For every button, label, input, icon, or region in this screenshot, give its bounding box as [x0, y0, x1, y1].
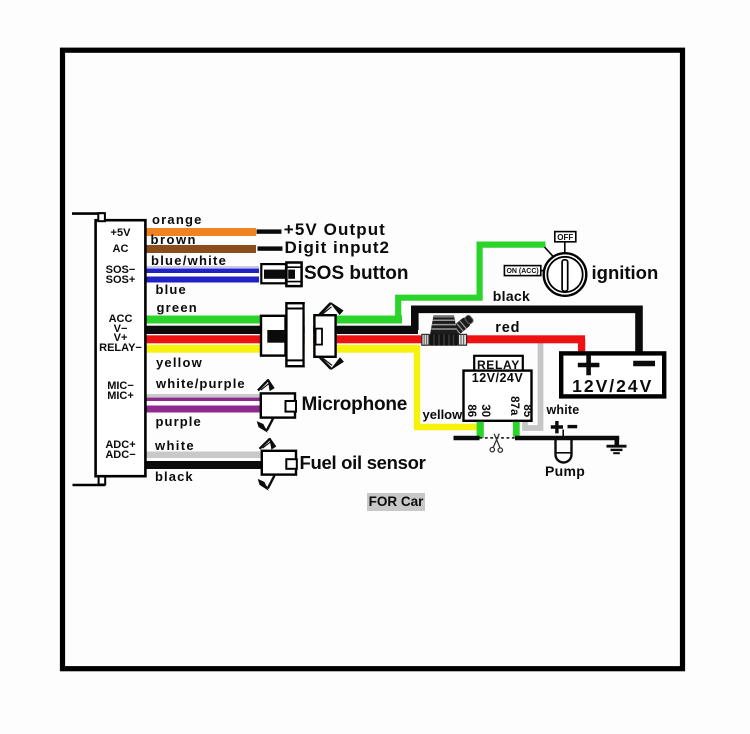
pin label ADC- — [96, 450, 146, 461]
wire label blue/white — [151, 254, 227, 267]
tracker connector block — [96, 220, 146, 476]
SOS connector housing — [261, 264, 286, 283]
ground symbol — [614, 438, 619, 445]
pin label MIC+ — [96, 391, 146, 402]
red wire main — [144, 335, 585, 343]
relay pin 86 — [464, 401, 476, 421]
white/purple wire — [144, 394, 261, 398]
pin label ADC+ — [96, 440, 146, 451]
ignition switch outer circle — [544, 253, 587, 296]
black wire riser to battery minus — [415, 309, 639, 351]
fuse cap body — [430, 316, 458, 335]
ignition switch inner circle — [547, 257, 582, 292]
pin label +5V — [96, 228, 146, 239]
ACC connector housing — [261, 316, 286, 356]
green wire main — [144, 316, 402, 324]
fuel sensor connector — [262, 451, 296, 475]
scissors — [490, 434, 502, 453]
dash before +5V Output — [257, 229, 282, 233]
yellow wire main — [144, 345, 420, 353]
brown wire — [144, 245, 256, 253]
pin label SOS+ — [96, 275, 146, 286]
label Fuel oil sensor — [300, 454, 426, 473]
pump minus terminal — [568, 425, 578, 428]
wire label green — [157, 301, 198, 314]
relay pin 30 — [478, 401, 490, 421]
label Microphone — [302, 395, 408, 414]
pin label SOS- — [96, 265, 146, 276]
battery label 12V/24V — [561, 378, 664, 396]
label FOR Car — [367, 493, 425, 511]
net label white — [547, 404, 580, 417]
wire label white/purple — [156, 377, 246, 390]
relay pin 85 — [520, 401, 532, 421]
purple wire — [144, 406, 261, 413]
wire label white — [155, 439, 195, 452]
ACC connector tall latch — [286, 303, 303, 366]
wire stub bottom-left of tracker block — [73, 484, 106, 487]
relay pin 30 lead (green) — [477, 422, 484, 438]
fuel sensor connector notch — [286, 459, 297, 469]
label Digit input2 — [285, 239, 390, 256]
label +5V Output — [284, 221, 386, 238]
arrow doodle below ACC connector — [320, 358, 343, 370]
fuse holder — [422, 314, 475, 346]
relay label box — [474, 356, 523, 371]
white wire (ADC) — [144, 452, 262, 459]
arrow doodle below microphone connector — [258, 418, 274, 431]
ACC mating connector notch — [316, 329, 322, 345]
net label yellow — [423, 408, 463, 421]
relay pin 87a lead (green) — [513, 422, 520, 437]
frame border — [63, 50, 683, 669]
yellow wire drop to relay pin 30 — [417, 349, 478, 427]
pump body — [556, 440, 572, 463]
arrow doodle above fuel connector — [260, 438, 276, 449]
cut line dashed segment — [480, 437, 516, 439]
relay label 12V/24V — [464, 372, 532, 385]
net label red — [495, 321, 520, 336]
arrow doodle above ACC connector — [320, 303, 343, 315]
tracker block top tab — [98, 213, 105, 221]
blue/white wire — [144, 266, 259, 273]
relay body — [464, 371, 532, 421]
black wire main — [144, 326, 418, 334]
wire label black — [155, 470, 194, 483]
ACC mating connector — [314, 315, 335, 357]
battery 12V/24V — [561, 353, 664, 396]
cut line left segment — [454, 436, 480, 441]
blue wire — [144, 277, 259, 283]
dash before Digit input2 — [258, 246, 283, 250]
fuse right metal cap — [458, 334, 466, 345]
wire label purple — [156, 415, 202, 428]
label OFF — [555, 234, 576, 242]
wire label orange — [152, 213, 203, 226]
black wire (ADC) — [144, 461, 262, 469]
microphone connector notch — [286, 401, 297, 412]
microphone connector — [261, 393, 295, 417]
ON (ACC) box — [504, 266, 540, 276]
pin label MIC- — [96, 381, 146, 392]
wire stub top-left of tracker block — [72, 212, 104, 215]
net label black — [493, 289, 530, 303]
pin label V+ — [96, 333, 146, 344]
orange wire — [144, 228, 256, 236]
pump lead line — [562, 430, 564, 438]
ignition switch line from green wire — [545, 247, 556, 259]
ignition key slot — [562, 260, 568, 291]
tracker block bottom tab — [99, 477, 106, 485]
SOS connector black bar — [264, 270, 295, 279]
red wire drop to battery plus — [578, 339, 585, 352]
wire label blue — [156, 283, 187, 296]
pin label RELAY- — [96, 343, 146, 354]
white wire (to relay 85) — [525, 341, 541, 428]
label Pump — [545, 464, 585, 478]
pin label AC — [96, 244, 146, 255]
pin label V- — [96, 324, 146, 335]
green wire riser to ignition — [398, 245, 545, 321]
SOS connector plug — [286, 263, 301, 287]
relay pin 87a — [507, 395, 519, 417]
label RELAY — [474, 359, 523, 371]
label SOS button — [304, 264, 408, 283]
wire label yellow — [156, 356, 203, 369]
fuse barrel — [429, 334, 459, 346]
fuse left metal cap — [422, 334, 429, 345]
label ON (ACC) — [504, 268, 540, 275]
battery plus sign — [578, 355, 600, 375]
pin label ACC — [96, 314, 146, 325]
label ignition — [592, 264, 659, 283]
battery minus sign — [633, 361, 655, 367]
cut line right segment to ground — [515, 436, 619, 441]
arrow doodle above microphone connector — [258, 379, 274, 390]
ACC connector black bar — [267, 330, 297, 343]
pump plus terminal — [551, 421, 563, 433]
wire label brown — [151, 233, 198, 246]
white gap between ACC halves — [305, 304, 313, 366]
arrow doodle below fuel connector — [259, 476, 275, 490]
fuse diagonal clip — [450, 314, 475, 337]
OFF box — [555, 232, 576, 242]
